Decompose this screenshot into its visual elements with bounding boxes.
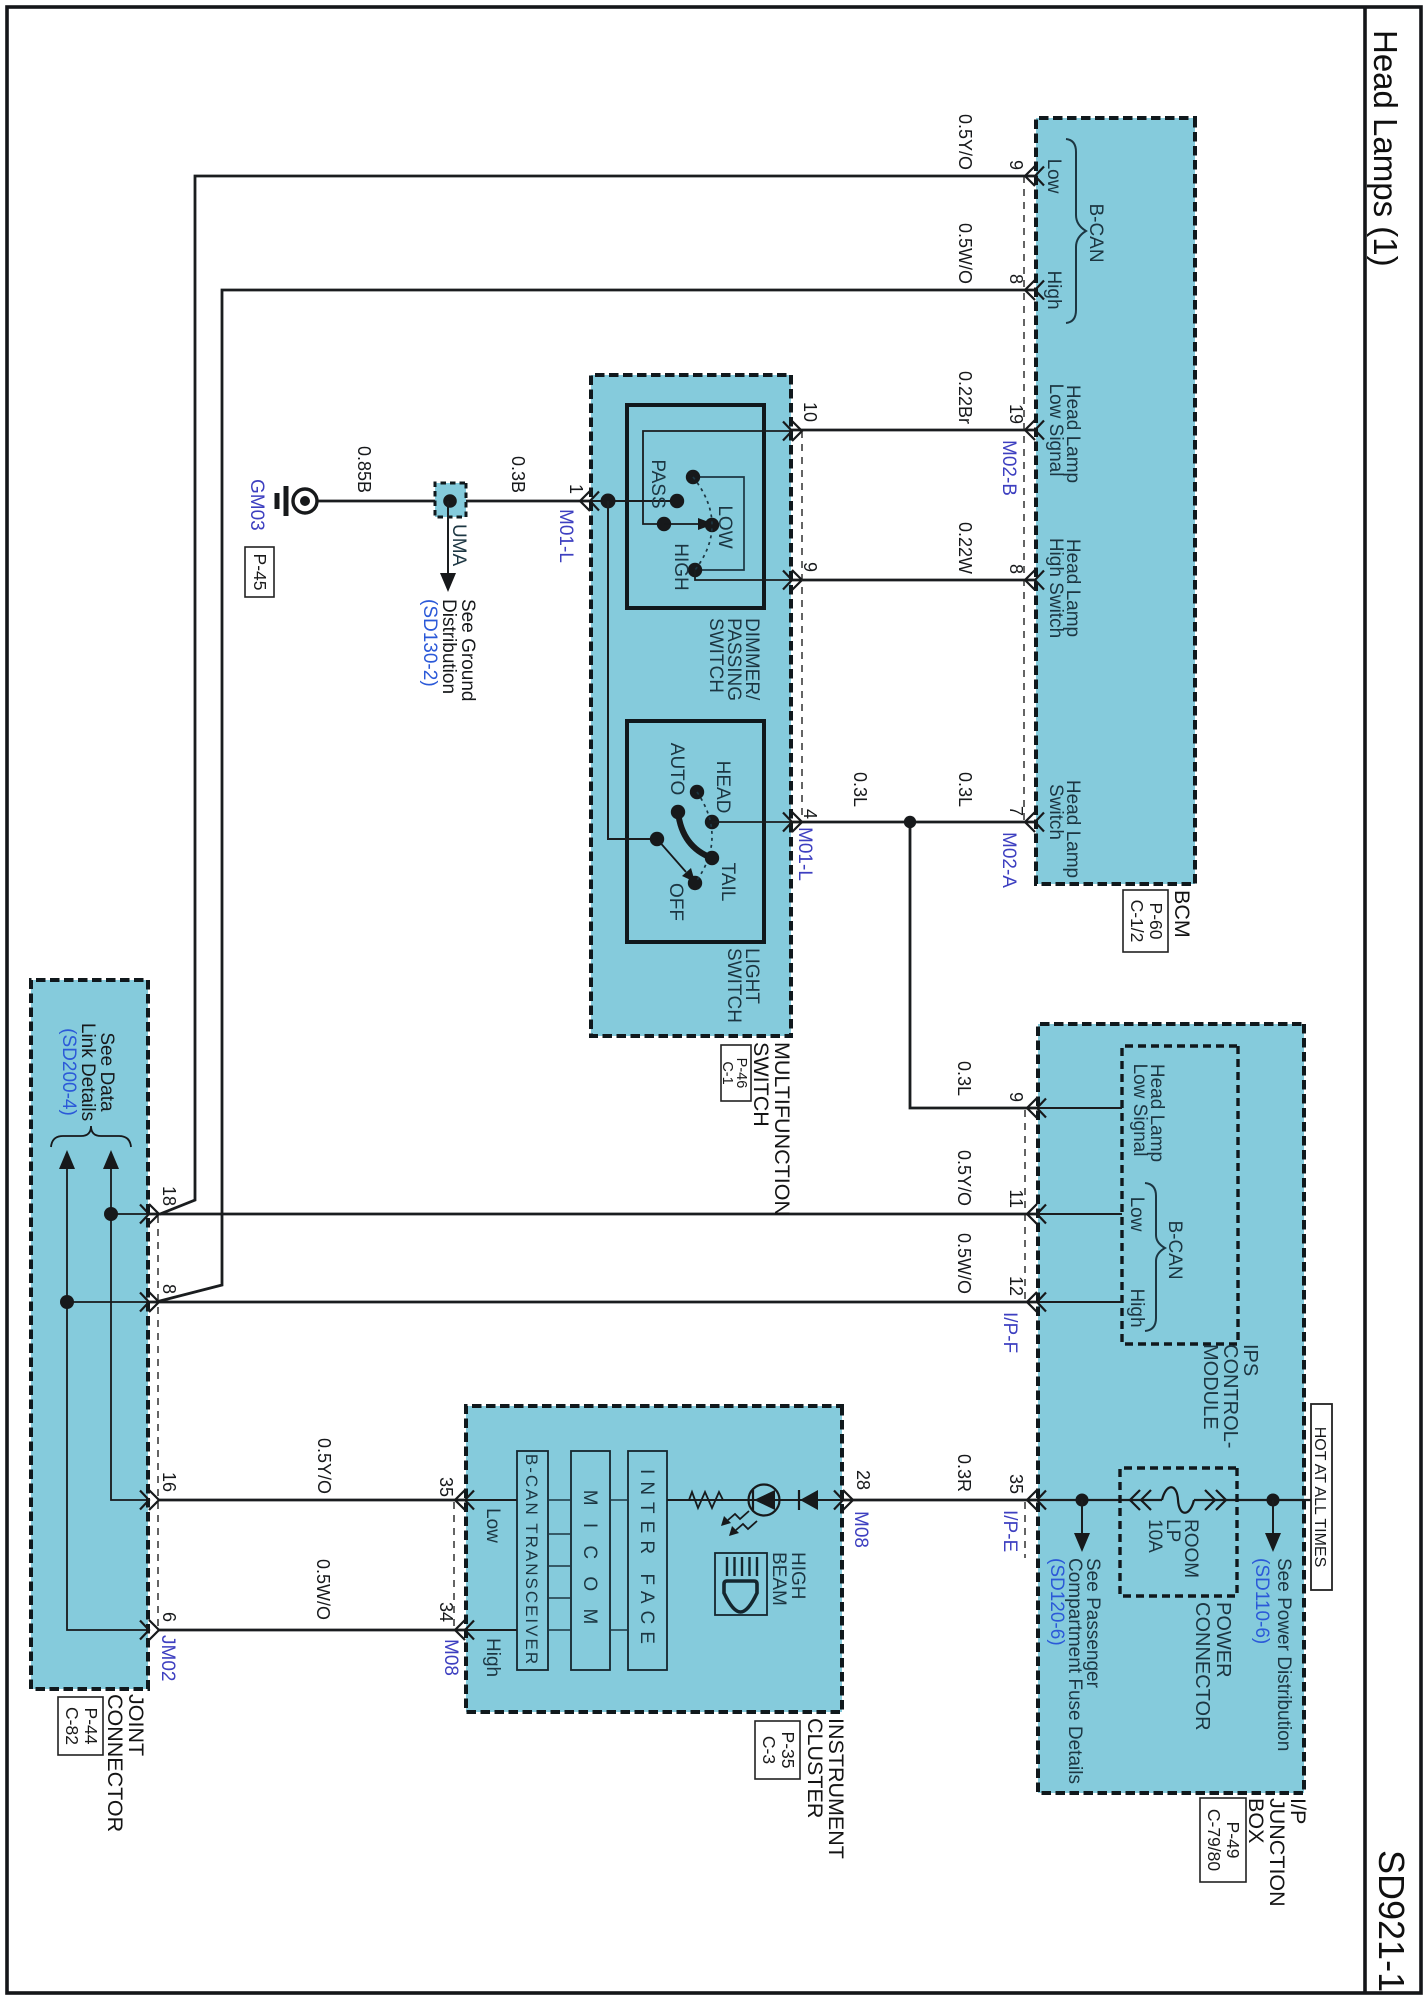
svg-text:Low Signal: Low Signal [1045, 384, 1066, 477]
svg-text:I/P-E: I/P-E [999, 1510, 1020, 1552]
light switch: AUTO dot [690, 785, 704, 799]
svg-text:34: 34 [436, 1602, 456, 1622]
svg-text:11: 11 [1006, 1189, 1026, 1208]
svg-text:MODULE: MODULE [1199, 1344, 1221, 1430]
svg-text:High: High [482, 1638, 503, 1677]
svg-text:Compartment Fuse Details: Compartment Fuse Details [1064, 1558, 1085, 1784]
svg-text:P-45: P-45 [250, 554, 270, 591]
wire: IPS pin 12 to joint connector pin 8 (0.5W/O) [158, 1301, 1038, 1304]
cluster pin 35 chevron [455, 1490, 474, 1510]
svg-text:Head Lamps (1): Head Lamps (1) [1367, 30, 1404, 267]
svg-text:PASS: PASS [647, 459, 668, 508]
MF pin 4 chevron [783, 812, 802, 832]
svg-text:0.3L: 0.3L [954, 1061, 974, 1096]
svg-text:28: 28 [853, 1470, 873, 1490]
joint connector internal bus B (pins 8/6) [67, 1168, 148, 1630]
high beam indicator icon [715, 1553, 767, 1615]
svg-text:I/P: I/P [1286, 1798, 1310, 1824]
svg-text:AUTO: AUTO [666, 743, 687, 795]
svg-text:0.5W/O: 0.5W/O [955, 223, 975, 284]
svg-text:See Ground: See Ground [457, 599, 478, 701]
svg-text:SD921-1: SD921-1 [1371, 1850, 1412, 1992]
svg-text:BCM: BCM [1170, 890, 1194, 938]
MF pin 10 chevron [783, 421, 802, 441]
svg-text:BOX: BOX [1244, 1798, 1268, 1843]
ground distribution branch arrow [447, 501, 449, 575]
MF pin 1 chevron [580, 491, 599, 511]
light switch: pin 4 wire [712, 821, 791, 823]
svg-text:B-CAN TRANSCEIVER: B-CAN TRANSCEIVER [522, 1454, 541, 1666]
MF connector dashed line (pins 10-9) [801, 431, 803, 822]
wire: branch to IPS pin 9 (0.3L) [910, 822, 1038, 1108]
diode [799, 1490, 818, 1510]
svg-text:8: 8 [159, 1284, 179, 1294]
BCM pin 19 chevron [1025, 420, 1044, 440]
dimmer: wiper arrow to LOW [664, 523, 700, 525]
light switch: HEAD/TAIL contact dot [705, 815, 719, 829]
I/P junction box ref box P-49 C-79/80 [1200, 1798, 1246, 1882]
svg-text:7: 7 [1006, 806, 1026, 816]
light switch: arrow to OFF [657, 839, 686, 872]
svg-text:INTER FACE: INTER FACE [636, 1469, 657, 1651]
dimmer: LOW terminal loop [694, 477, 744, 570]
light switch: OFF dot [688, 876, 702, 890]
svg-text:M01-L: M01-L [794, 827, 815, 881]
svg-text:0.5Y/O: 0.5Y/O [314, 1438, 334, 1494]
svg-text:35: 35 [1006, 1474, 1026, 1494]
svg-text:POWER: POWER [1212, 1602, 1234, 1678]
svg-text:HEAD: HEAD [712, 761, 733, 814]
joint connector box [31, 980, 148, 1689]
dimmer: pin 10 circuit [643, 431, 791, 524]
IPS pin 11 chevron [1027, 1204, 1046, 1224]
svg-text:HOT AT ALL TIMES: HOT AT ALL TIMES [1311, 1427, 1328, 1568]
svg-text:B-CAN: B-CAN [1085, 203, 1106, 262]
svg-text:JM02: JM02 [157, 1635, 178, 1681]
wire: IPS pin 35 to cluster pin 28 (0.3R) [842, 1499, 1038, 1502]
multifunction connector ref box P-46 C-1 [719, 1045, 751, 1101]
power feed wire through fuse to pin 35 [1194, 1499, 1311, 1501]
cluster pin 34 chevron [455, 1620, 474, 1640]
svg-text:SWITCH: SWITCH [723, 948, 744, 1023]
svg-text:TAIL: TAIL [717, 863, 738, 902]
dimmer: junction dot on pin1 wire [601, 494, 616, 509]
pin 8 internal stub [67, 1301, 148, 1303]
MF pin 9 chevron [783, 570, 802, 590]
light switch: feed contact dot [650, 832, 664, 846]
instrument cluster box [466, 1406, 842, 1712]
svg-text:10: 10 [800, 402, 820, 422]
data link brace [51, 1126, 131, 1147]
svg-text:GM03: GM03 [246, 479, 267, 531]
svg-text:C-3: C-3 [759, 1736, 779, 1764]
svg-text:M I C O M: M I C O M [579, 1490, 600, 1631]
dimmer: LOW position dot [705, 518, 719, 532]
svg-text:CLUSTER: CLUSTER [803, 1718, 827, 1818]
svg-text:C-1/2: C-1/2 [1127, 900, 1147, 943]
title separator line [1363, 7, 1367, 1993]
svg-text:9: 9 [1006, 160, 1026, 170]
svg-text:HIGH: HIGH [670, 543, 691, 591]
svg-text:LIGHT: LIGHT [741, 948, 762, 1004]
high beam indicator circuit wire [667, 1499, 842, 1501]
svg-text:(SD130-2): (SD130-2) [419, 599, 440, 687]
joint connector internal bus A (pins 18/16) [111, 1168, 148, 1500]
stubs between micom and interface [610, 1499, 628, 1501]
instrument cluster ref box P-35 C-3 [755, 1721, 800, 1779]
svg-text:C-82: C-82 [62, 1707, 82, 1745]
dimmer: top contact dot [686, 470, 700, 484]
svg-text:P-46: P-46 [733, 1058, 749, 1089]
power connector dashed box [1120, 1468, 1237, 1596]
svg-text:CONNECTOR: CONNECTOR [1191, 1602, 1213, 1731]
junction dot pin 8 to bus B [60, 1295, 74, 1309]
dimmer: pin 9 circuit from HIGH contact [695, 570, 791, 580]
svg-text:0.3L: 0.3L [955, 772, 975, 807]
svg-text:High: High [1126, 1288, 1147, 1327]
ground symbol GM03 [277, 486, 317, 516]
IPS pin 35 chevron [1027, 1490, 1046, 1510]
JC pin 18 chevron [140, 1204, 159, 1224]
light switch box [627, 721, 764, 942]
svg-text:M08: M08 [440, 1639, 461, 1676]
dimmer/passing switch box [627, 405, 764, 608]
svg-text:MULTIFUNCTION: MULTIFUNCTION [770, 1042, 794, 1216]
svg-text:OFF: OFF [665, 883, 686, 921]
svg-text:(SD200-4): (SD200-4) [58, 1028, 79, 1116]
svg-text:SWITCH: SWITCH [749, 1042, 773, 1127]
I/P junction box [1038, 1024, 1304, 1793]
wire: BCM pin 8 to multifunction switch pin 9 (0.22W) [791, 579, 1036, 582]
BCM pin 8b chevron [1025, 570, 1044, 590]
b-can transceiver block [517, 1451, 548, 1670]
svg-text:P-49: P-49 [1223, 1822, 1243, 1859]
svg-text:PASSING: PASSING [723, 618, 744, 701]
svg-text:ROOM: ROOM [1180, 1519, 1201, 1578]
BCM connector ref box P-60 C-1/2 [1123, 890, 1168, 952]
dimmer: wire pin1 stub to PASS contact [591, 500, 677, 502]
multifunction switch box [591, 375, 791, 1036]
svg-text:See Passenger: See Passenger [1082, 1558, 1103, 1689]
svg-text:0.3B: 0.3B [508, 456, 528, 493]
pin 18 internal stub [111, 1213, 148, 1215]
IPS connector dashed line [1024, 1110, 1026, 1302]
UMA joint connector dashed box [435, 483, 466, 517]
ground ref box P-45 [245, 547, 274, 597]
svg-text:M01-L: M01-L [555, 509, 576, 563]
bus A arrow head [103, 1150, 119, 1169]
IPS pin 11 stub [1038, 1213, 1122, 1215]
JC connector dashed line JM02 [157, 1216, 159, 1630]
wire: cluster pin 34 to joint connector pin 6 (0.5W/O) [158, 1629, 466, 1632]
svg-text:C-79/80: C-79/80 [1204, 1809, 1224, 1872]
B-CAN brace (BCM) [1066, 139, 1086, 323]
svg-text:12: 12 [1006, 1276, 1026, 1296]
fuse chevron upper [1205, 1490, 1226, 1510]
cluster pin 28 chevron [834, 1490, 853, 1510]
svg-text:1: 1 [566, 484, 586, 494]
fuse chevron lower [1130, 1490, 1151, 1510]
IPS pin 12 stub [1038, 1301, 1122, 1303]
svg-text:DIMMER/: DIMMER/ [741, 618, 762, 701]
svg-text:INSTRUMENT: INSTRUMENT [824, 1718, 848, 1859]
svg-text:P-44: P-44 [81, 1708, 101, 1745]
svg-text:M02-A: M02-A [998, 832, 1019, 888]
svg-text:0.5Y/O: 0.5Y/O [954, 1150, 974, 1206]
junction dot pin 18 to bus A [104, 1207, 118, 1221]
UMA junction dot [443, 494, 457, 508]
wire: junction to light switch feed contact [608, 501, 657, 839]
svg-text:P-60: P-60 [1146, 903, 1166, 940]
svg-text:19: 19 [1006, 404, 1026, 424]
svg-text:LP: LP [1162, 1519, 1183, 1542]
cluster pin 34 wire to transceiver [466, 1629, 517, 1631]
svg-text:See Data: See Data [96, 1032, 117, 1112]
svg-text:CONNECTOR: CONNECTOR [103, 1694, 127, 1832]
light switch: wiper end dots [671, 805, 685, 819]
wire: BCM pin 7 to multifunction switch pin 4 (0.3L) [791, 821, 1036, 824]
svg-text:Low: Low [1043, 159, 1064, 194]
wire: B-CAN High, BCM pin 8 to joint connector pin 8 (0.5W/O) [148, 290, 1036, 1302]
interface block [628, 1451, 667, 1670]
JC pin 6 chevron [140, 1620, 159, 1640]
junction dot above fuse [1267, 1494, 1280, 1507]
svg-text:BEAM: BEAM [768, 1552, 789, 1606]
JC pin 16 chevron [140, 1490, 159, 1510]
dimmer: PASS contact dot [670, 494, 684, 508]
cluster connector dashed line M08 bottom [453, 1502, 455, 1630]
svg-text:High Switch: High Switch [1045, 538, 1066, 638]
IPS pin 12 chevron [1027, 1292, 1046, 1312]
svg-text:0.3L: 0.3L [850, 772, 870, 807]
cluster pin 35 wire to transceiver [466, 1499, 517, 1501]
svg-text:HIGH: HIGH [787, 1552, 808, 1600]
wire: BCM pin 19 to multifunction switch pin 10 (0.22Br) [791, 429, 1036, 432]
svg-text:JUNCTION: JUNCTION [1265, 1798, 1289, 1907]
stubs between transceiver and micom [548, 1499, 571, 1501]
IPS pin 9 stub [1038, 1107, 1122, 1109]
svg-text:Low: Low [1126, 1197, 1147, 1232]
svg-text:Switch: Switch [1045, 784, 1066, 840]
JC pin 8 chevron [140, 1292, 159, 1312]
svg-text:9: 9 [800, 562, 820, 572]
see passenger fuse details branch arrow [1081, 1500, 1083, 1534]
svg-text:High: High [1043, 270, 1064, 309]
svg-text:0.85B: 0.85B [354, 446, 374, 493]
svg-text:8: 8 [1006, 274, 1026, 284]
svg-text:Link Details: Link Details [77, 1023, 98, 1121]
svg-text:(SD110-6): (SD110-6) [1251, 1558, 1272, 1644]
svg-text:M02-B: M02-B [998, 440, 1019, 496]
HOT AT ALL TIMES box [1311, 1404, 1332, 1590]
svg-text:C-1: C-1 [719, 1061, 735, 1084]
svg-text:P-35: P-35 [778, 1732, 798, 1769]
svg-text:0.22Br: 0.22Br [955, 371, 975, 424]
wire: cluster pin 35 to joint connector pin 16 (0.5Y/O) [158, 1499, 466, 1502]
svg-text:Low: Low [482, 1508, 503, 1543]
dimmer: wiper pivot dot [657, 517, 671, 531]
IPS pin 9 chevron [1027, 1098, 1046, 1118]
bus B arrow head [59, 1150, 75, 1169]
svg-text:IPS: IPS [1239, 1344, 1261, 1376]
wire: B-CAN Low, BCM pin 9 to joint connector pin 18 (0.5Y/O) [148, 176, 1036, 1214]
wire: multifunction switch pin 1 to ground GM03 (0.3B / 0.85B) [317, 500, 591, 503]
svg-text:(SD120-6): (SD120-6) [1046, 1558, 1067, 1646]
B-CAN brace (IPS) [1145, 1183, 1165, 1331]
svg-text:0.3R: 0.3R [954, 1454, 974, 1492]
light switch: wiper thick arc [678, 812, 712, 858]
junction dot: pin7 wire to IPS pin 9 branch [904, 816, 916, 828]
svg-text:M08: M08 [850, 1511, 871, 1548]
micom block [571, 1451, 610, 1670]
BCM pin 7 chevron [1025, 812, 1044, 832]
BCM connector dashed line M02 [1023, 176, 1025, 822]
wire: IPS pin 11 to joint connector pin 18 (0.5Y/O) [160, 1213, 1038, 1216]
dimmer: travel dashed arc [693, 477, 712, 570]
svg-text:Distribution: Distribution [438, 599, 459, 694]
svg-text:0.5W/O: 0.5W/O [313, 1559, 333, 1620]
BCM pin 9 chevron [1025, 166, 1044, 186]
light switch: travel dashed arc [695, 792, 712, 883]
high beam indicator LED [749, 1485, 780, 1516]
BCM pin 8 chevron [1025, 280, 1044, 300]
svg-text:JOINT: JOINT [124, 1694, 148, 1756]
joint connector ref box P-44 C-82 [58, 1697, 103, 1755]
svg-text:0.22W: 0.22W [955, 522, 975, 574]
svg-text:Low Signal: Low Signal [1129, 1064, 1150, 1157]
svg-text:8: 8 [1006, 564, 1026, 574]
svg-text:UMA: UMA [448, 524, 469, 567]
svg-text:4: 4 [800, 809, 820, 819]
svg-text:9: 9 [1006, 1092, 1026, 1102]
svg-text:16: 16 [159, 1472, 179, 1492]
svg-text:B-CAN: B-CAN [1164, 1220, 1185, 1279]
IPS control module box [1122, 1046, 1238, 1344]
svg-text:35: 35 [436, 1477, 456, 1497]
svg-text:0.5Y/O: 0.5Y/O [955, 114, 975, 170]
svg-text:I/P-F: I/P-F [999, 1312, 1020, 1353]
svg-text:See Power Distribution: See Power Distribution [1273, 1558, 1294, 1751]
svg-text:18: 18 [159, 1186, 179, 1206]
resistor [689, 1492, 723, 1508]
svg-text:6: 6 [159, 1612, 179, 1622]
svg-text:SWITCH: SWITCH [705, 618, 726, 693]
svg-text:CONTROL-: CONTROL- [1219, 1344, 1241, 1448]
svg-text:10A: 10A [1144, 1519, 1165, 1553]
junction dot below fuse [1076, 1494, 1089, 1507]
svg-text:0.5W/O: 0.5W/O [954, 1233, 974, 1294]
dimmer: HIGH contact dot [688, 563, 702, 577]
fuse element ROOM LP 10A [1162, 1487, 1194, 1513]
LED emission arrows [728, 1511, 757, 1530]
BCM box [1036, 118, 1195, 884]
see power distribution branch arrow [1272, 1500, 1274, 1534]
